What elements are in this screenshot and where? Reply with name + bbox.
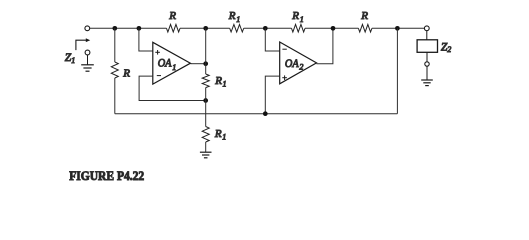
resistor R (vertical left, zigzag): [111, 62, 118, 78]
wire OA1 output to node: [190, 63, 205, 65]
node dot OA2 output on top wire: [331, 26, 336, 31]
wire between first R1 and second R1: [244, 27, 292, 29]
OA2 minus sign: [282, 48, 286, 50]
wire between R1 and right R: [305, 27, 358, 29]
resistor R1 (vertical, to ground): [202, 127, 209, 143]
node dot top wire above OA1 output: [203, 26, 208, 31]
bottom wire: [115, 113, 398, 115]
wire Z2 terminal to ground: [426, 66, 428, 79]
svg-text:1: 1: [236, 15, 240, 24]
wire from right R to output terminal: [372, 27, 425, 29]
svg-text:1: 1: [223, 80, 227, 89]
op-amp OA2: [280, 42, 317, 84]
Z2 lower terminal circle: [425, 62, 429, 66]
wire from Z1 terminal to ground: [87, 55, 89, 65]
svg-text:R: R: [214, 75, 222, 87]
wire Z2 box to terminal circle: [426, 52, 428, 62]
wire between R and R1: [180, 27, 230, 29]
wire output node to R1: [205, 64, 207, 74]
node dot feedback to R1 junction: [203, 98, 208, 103]
OA1 minus sign: [157, 75, 161, 77]
wire top segment from input terminal to resistor R: [90, 27, 167, 29]
node dot OA2 plus on bottom wire: [263, 111, 268, 116]
svg-text:R: R: [214, 128, 222, 140]
wire OA1 minus input feedback down and right: [139, 76, 206, 100]
resistor R1 (top, second, horizontal zigzag): [230, 24, 244, 32]
output terminal circle: [424, 26, 429, 31]
ground (below R1): [200, 152, 212, 158]
svg-text:1: 1: [71, 56, 75, 65]
svg-text:R: R: [291, 10, 299, 22]
wire OA2 plus input down to bottom wire: [265, 76, 279, 114]
wire output terminal down to Z2: [426, 31, 428, 40]
wire from top wire down to OA1 output node: [205, 28, 207, 63]
svg-text:R: R: [168, 10, 176, 22]
node dot OA1 output: [203, 61, 208, 66]
resistor R1 (top, third, horizontal zigzag): [292, 24, 306, 32]
svg-text:OA: OA: [158, 58, 173, 70]
ground (output port): [421, 80, 433, 86]
svg-text:R: R: [122, 67, 130, 79]
node dot at OA1 + input branch: [137, 26, 142, 31]
wire R1 to feedback node and down across bottom wire: [205, 88, 207, 127]
input terminal circle: [85, 26, 90, 31]
svg-text:R: R: [228, 10, 236, 22]
svg-text:R: R: [360, 10, 368, 22]
resistor R (top left, horizontal zigzag): [167, 24, 181, 32]
OA1 plus sign: [155, 50, 160, 55]
svg-text:1: 1: [300, 15, 304, 24]
node dot at R branch on top wire: [112, 26, 117, 31]
resistor R1 (vertical, between output and feedback node): [202, 74, 209, 88]
svg-text:2: 2: [299, 63, 303, 72]
wire OA2 output right and up to top wire: [317, 28, 333, 63]
svg-text:FIGURE P4.22: FIGURE P4.22: [69, 168, 144, 183]
Z1 arrow (impedance looking into port): [76, 38, 90, 50]
ground (input port): [81, 65, 94, 71]
node dot right feedback branch: [395, 26, 400, 31]
svg-text:2: 2: [447, 45, 451, 54]
svg-text:1: 1: [222, 133, 226, 142]
OA2 plus sign: [282, 75, 287, 80]
svg-text:OA: OA: [285, 58, 300, 70]
wire right feedback down to bottom wire: [396, 28, 398, 113]
svg-text:1: 1: [172, 63, 176, 72]
wire from top wire down to OA1 + input: [139, 28, 153, 51]
wire from top node down to resistor R vertical: [114, 28, 116, 62]
wire from top wire down to OA2 minus input: [265, 28, 279, 51]
wire from R down to bottom wire corner: [114, 78, 116, 114]
op-amp OA1: [153, 42, 191, 84]
resistor R (top right, horizontal zigzag): [358, 24, 372, 32]
impedance Z2 box: [417, 40, 437, 53]
Z1 port lower terminal circle: [85, 50, 90, 55]
node dot at OA2 minus branch: [263, 26, 268, 31]
wire R1 to ground: [205, 142, 207, 152]
